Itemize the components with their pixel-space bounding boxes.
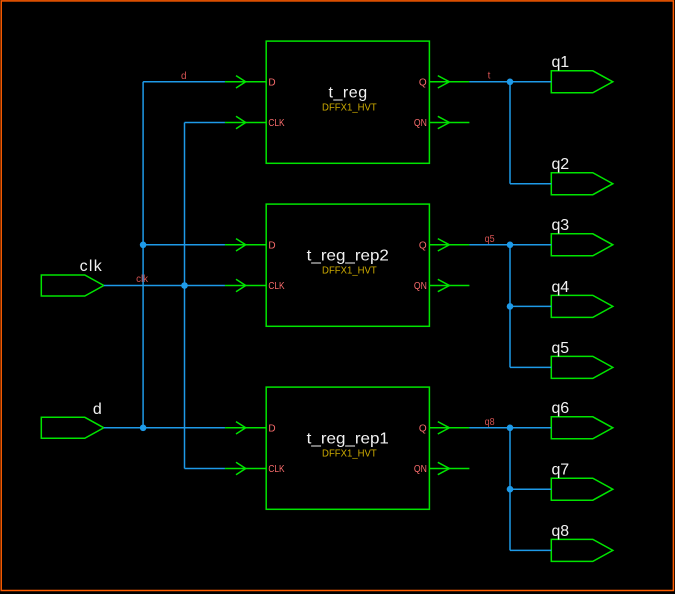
- svg-text:QN: QN: [414, 118, 427, 129]
- svg-text:Q: Q: [419, 423, 427, 434]
- wire net q8 to q7: [510, 488, 551, 490]
- wire net d vertical: [142, 82, 144, 428]
- svg-text:q3: q3: [552, 217, 570, 234]
- wire net t vertical: [509, 82, 511, 184]
- output port q6: [551, 417, 613, 439]
- wire net d to U2.D: [143, 244, 225, 246]
- DFF U2 t_reg_rep2: [266, 204, 429, 326]
- DFF U3 t_reg_rep1: [266, 387, 429, 509]
- pin stub U2 D: [225, 239, 266, 251]
- junction net q5 at q4: [507, 303, 514, 310]
- pin stub U1 D: [225, 76, 266, 88]
- pin stub U3 D: [225, 422, 266, 434]
- pin stub U1 Q: [429, 76, 469, 88]
- svg-text:q8: q8: [552, 523, 570, 540]
- svg-text:Q: Q: [419, 240, 427, 251]
- svg-text:CLK: CLK: [268, 464, 284, 475]
- pin stub U3 CLK: [225, 462, 266, 474]
- wire net clk input horizontal: [104, 285, 225, 287]
- svg-text:q5: q5: [552, 340, 570, 357]
- wire net t to q2: [510, 183, 551, 185]
- junction net q8 at q6: [507, 425, 514, 432]
- svg-text:q1: q1: [552, 54, 570, 71]
- svg-text:QN: QN: [414, 464, 427, 475]
- junction net q5 at q3: [507, 242, 514, 249]
- pin stub U3 Q: [429, 422, 469, 434]
- wire net d input horizontal: [104, 427, 225, 429]
- wire net q8 horizontal to q6: [469, 427, 551, 429]
- output port q3: [551, 234, 613, 256]
- wire net clk to U3.CLK: [185, 468, 225, 470]
- svg-text:DFFX1_HVT: DFFX1_HVT: [322, 449, 377, 460]
- junction net q8 at q7: [507, 486, 514, 493]
- wire net q5 vertical: [509, 245, 511, 368]
- wire net q5 to q4: [510, 305, 551, 307]
- wire net q5 horizontal to q3: [469, 244, 551, 246]
- svg-text:q4: q4: [552, 279, 570, 296]
- input port clk: [41, 275, 104, 296]
- svg-text:D: D: [268, 77, 275, 88]
- wire net clk to U1.CLK: [185, 122, 225, 124]
- svg-text:D: D: [268, 423, 275, 434]
- svg-text:q6: q6: [552, 400, 570, 417]
- svg-text:Q: Q: [419, 77, 427, 88]
- input port d: [41, 417, 104, 438]
- svg-text:t_reg: t_reg: [328, 84, 367, 101]
- DFF U1 t_reg: [266, 41, 429, 163]
- svg-text:DFFX1_HVT: DFFX1_HVT: [322, 266, 377, 277]
- svg-text:clk: clk: [80, 258, 103, 275]
- pin stub U1 QN (unconnected): [429, 116, 469, 128]
- svg-text:q5: q5: [485, 234, 495, 245]
- output port q5: [551, 356, 613, 378]
- pin stub U2 QN (unconnected): [429, 279, 469, 291]
- wire net q5 to q5 port: [510, 366, 551, 368]
- wire net clk vertical: [184, 123, 186, 469]
- output port q4: [551, 295, 613, 317]
- pin stub U1 CLK: [225, 116, 266, 128]
- svg-text:CLK: CLK: [268, 281, 284, 292]
- wire net q8 to q8 port: [510, 549, 551, 551]
- wire net q8 vertical: [509, 428, 511, 551]
- pin stub U3 QN (unconnected): [429, 462, 469, 474]
- svg-text:DFFX1_HVT: DFFX1_HVT: [322, 103, 377, 114]
- svg-text:QN: QN: [414, 281, 427, 292]
- svg-text:q8: q8: [485, 417, 495, 428]
- svg-text:t_reg_rep2: t_reg_rep2: [307, 247, 389, 264]
- svg-text:q2: q2: [552, 156, 570, 173]
- svg-text:t_reg_rep1: t_reg_rep1: [307, 430, 389, 447]
- svg-text:t: t: [488, 71, 491, 82]
- junction net d at U2.D: [140, 242, 147, 249]
- junction net d at input row: [140, 425, 147, 432]
- pin stub U2 CLK: [225, 279, 266, 291]
- junction net clk at input row: [181, 282, 188, 289]
- output port q7: [551, 478, 613, 500]
- svg-text:d: d: [181, 71, 187, 82]
- svg-text:q7: q7: [552, 462, 570, 479]
- output port q1: [551, 71, 613, 93]
- output port q2: [551, 173, 613, 195]
- svg-text:d: d: [93, 401, 102, 418]
- svg-text:CLK: CLK: [268, 118, 284, 129]
- pin stub U2 Q: [429, 239, 469, 251]
- svg-text:clk: clk: [136, 274, 149, 285]
- wire net t horizontal to q1: [469, 81, 551, 83]
- output port q8: [551, 539, 613, 561]
- wire net d to U1.D: [143, 81, 225, 83]
- svg-text:D: D: [268, 240, 275, 251]
- junction net t at q1: [507, 79, 514, 86]
